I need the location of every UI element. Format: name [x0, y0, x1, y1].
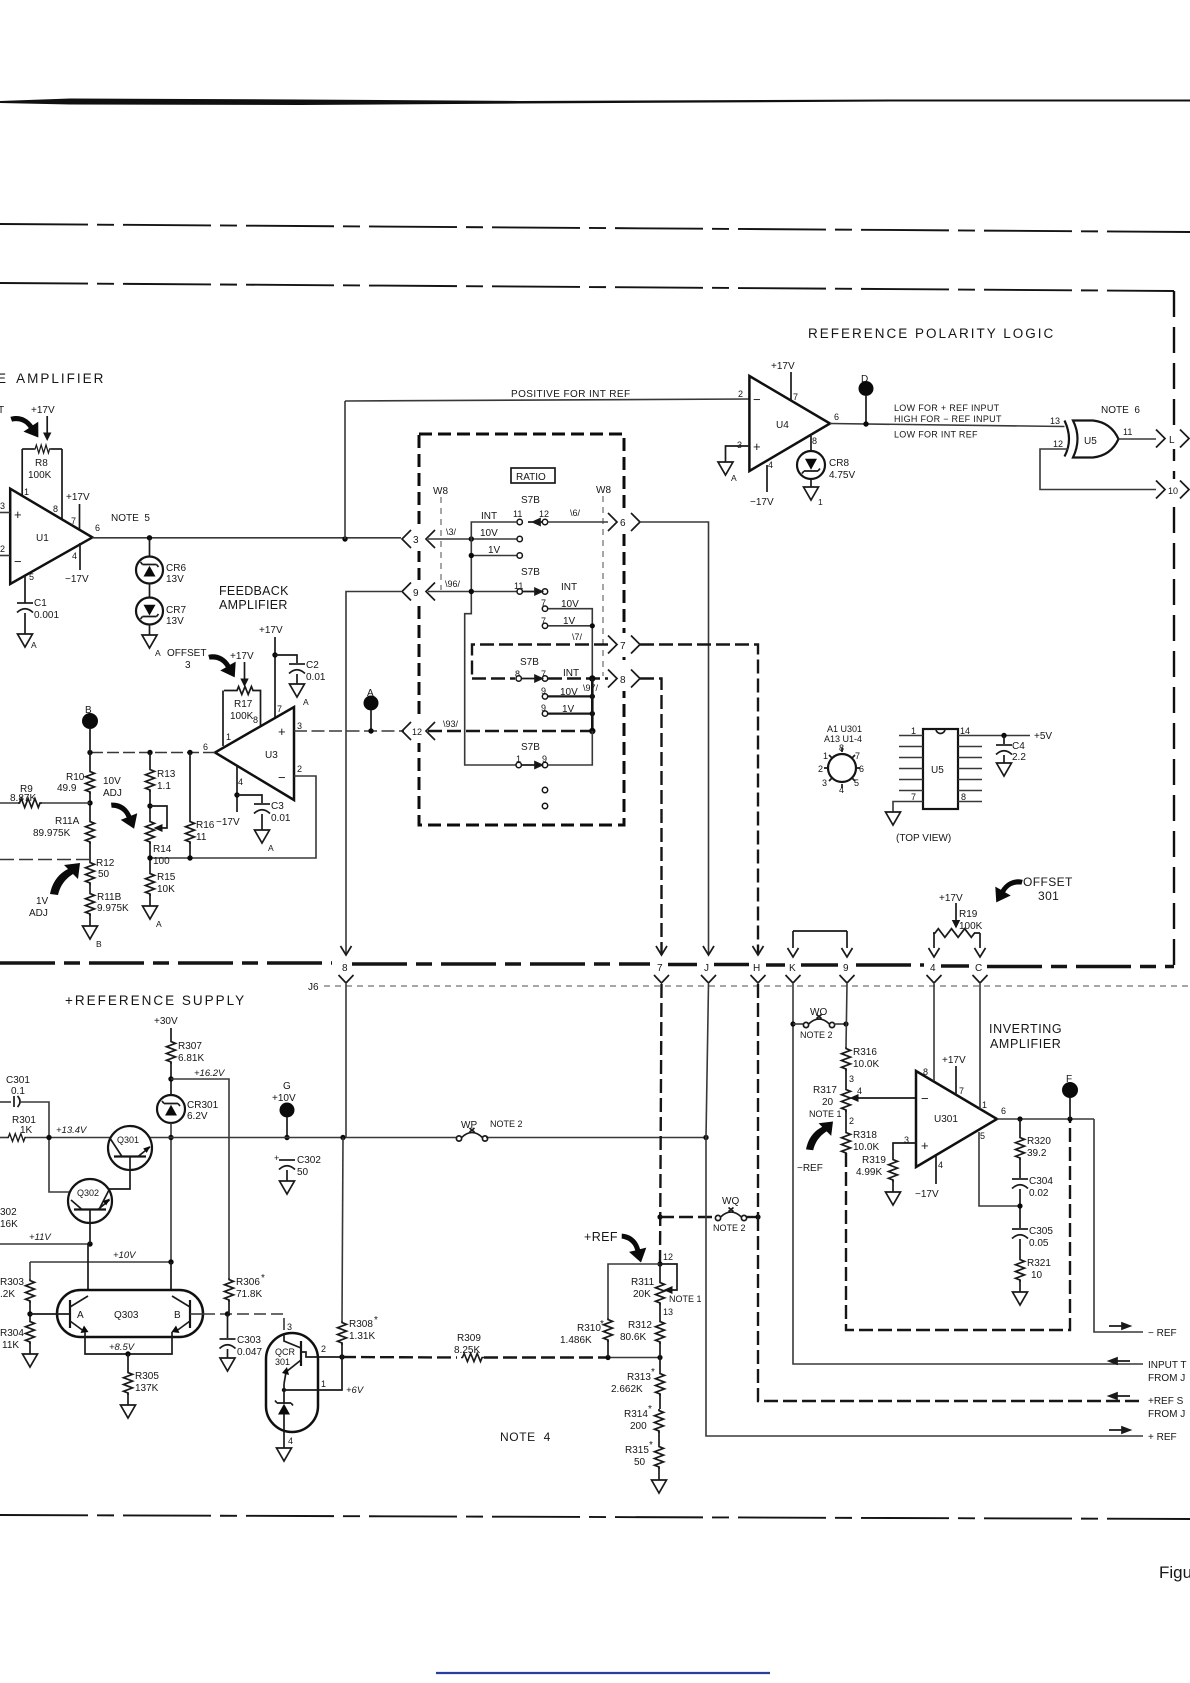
wire R314 to R315	[658, 1431, 660, 1445]
wire R15 to ground	[149, 894, 151, 906]
svg-text:6.2V: 6.2V	[187, 1111, 208, 1122]
svg-text:3: 3	[297, 721, 302, 731]
offset adjust arrow at R17	[204, 651, 240, 677]
op-amp U3 (mirrored, output left)	[215, 707, 294, 800]
spare contact 1	[542, 787, 547, 792]
svg-text:R11A: R11A	[55, 816, 80, 827]
emitter rail below Q303	[85, 1332, 172, 1354]
svg-text:10V: 10V	[480, 528, 498, 539]
wire +17V into R17 wiper	[244, 662, 246, 683]
svg-text:\93/: \93/	[443, 719, 459, 729]
svg-text:A: A	[367, 688, 374, 699]
svg-text:FROM J: FROM J	[1148, 1409, 1185, 1420]
capacitor C305 0.05	[1012, 1229, 1028, 1239]
svg-text:LOW FOR + REF INPUT: LOW FOR + REF INPUT	[894, 403, 1000, 413]
svg-text:W8: W8	[596, 485, 611, 496]
svg-text:10K: 10K	[157, 884, 175, 895]
svg-text:POSITIVE FOR INT REF: POSITIVE FOR INT REF	[511, 389, 631, 400]
svg-text:\7/: \7/	[572, 632, 583, 642]
svg-text:6: 6	[834, 412, 839, 422]
resistor R314* 200	[655, 1409, 664, 1433]
wire branch to C2	[275, 655, 297, 663]
svg-text:A: A	[268, 843, 274, 853]
svg-text:0.001: 0.001	[34, 610, 59, 621]
resistor R16 11	[189, 753, 191, 821]
ground A below C1	[18, 634, 33, 647]
svg-text:10.0K: 10.0K	[853, 1059, 879, 1070]
svg-text:REFERENCE POLARITY LOGIC: REFERENCE POLARITY LOGIC	[808, 326, 1055, 341]
svg-text:R19: R19	[959, 909, 978, 920]
svg-text:C304: C304	[1029, 1176, 1053, 1187]
resistor R315* 50	[655, 1445, 664, 1469]
svg-text:NOTE 1: NOTE 1	[809, 1109, 842, 1119]
svg-text:8: 8	[253, 715, 258, 725]
wire R315 to ground	[658, 1467, 660, 1480]
svg-text:C303: C303	[237, 1335, 261, 1346]
svg-text:R321: R321	[1027, 1258, 1051, 1269]
wire C1 to ground	[24, 613, 26, 634]
wire R11B to ground	[89, 914, 91, 926]
svg-text:R320: R320	[1027, 1136, 1051, 1147]
svg-text:R312: R312	[628, 1320, 652, 1331]
J6 pin 7	[656, 946, 667, 955]
svg-text:8: 8	[923, 1067, 928, 1077]
svg-text:A: A	[155, 648, 161, 658]
resistor R318 10.0K	[842, 1131, 851, 1155]
svg-text:WQ: WQ	[722, 1196, 739, 1207]
IC U5 package top view	[923, 729, 958, 809]
svg-text:39.2: 39.2	[1027, 1148, 1047, 1159]
wire R13 to R14	[149, 790, 151, 820]
Q303-B internals	[189, 1300, 191, 1328]
J6 grey connector line	[324, 985, 1190, 987]
svg-text:12: 12	[1053, 439, 1063, 449]
svg-text:−: −	[14, 554, 22, 569]
svg-text:4: 4	[288, 1436, 293, 1446]
wire R10 to R9 node	[89, 792, 91, 820]
svg-text:R16: R16	[196, 820, 215, 831]
ground B	[83, 926, 98, 939]
svg-text:0.05: 0.05	[1029, 1238, 1049, 1249]
wire branch to C3	[237, 795, 262, 803]
J net riser and +REF output	[706, 984, 709, 1138]
svg-text:C301: C301	[6, 1075, 30, 1086]
svg-text:−: −	[753, 392, 761, 407]
svg-text:7: 7	[657, 963, 663, 974]
svg-text:+ REF: + REF	[1148, 1432, 1177, 1443]
svg-text:7: 7	[911, 792, 916, 802]
thick dashed net 8 to J6 pin7 riser	[640, 679, 662, 956]
wire +30V to R307	[170, 1028, 172, 1040]
wire Q303 output from B	[190, 1313, 203, 1315]
pin 3 input wire	[0, 512, 10, 514]
svg-text:3: 3	[0, 501, 5, 511]
svg-text:8.25K: 8.25K	[454, 1345, 480, 1356]
svg-text:FEEDBACK: FEEDBACK	[219, 584, 289, 598]
svg-text:C4: C4	[1012, 741, 1025, 752]
wire 1V contact to vertical	[548, 625, 592, 627]
svg-text:+17V: +17V	[771, 361, 795, 372]
svg-text:U1: U1	[36, 533, 49, 544]
svg-text:12: 12	[412, 727, 422, 737]
xor gate U5	[1065, 421, 1070, 457]
connector 8 at box right edge	[608, 670, 617, 688]
wire Q302 emitter to +11V rail	[89, 1223, 91, 1244]
svg-text:R314: R314	[624, 1409, 648, 1420]
svg-text:3: 3	[737, 440, 742, 450]
svg-text:E AMPLIFIER: E AMPLIFIER	[0, 371, 105, 386]
svg-text:NOTE 2: NOTE 2	[490, 1119, 523, 1129]
wire +17V down to U3 pin7	[274, 637, 276, 718]
svg-text:4: 4	[839, 785, 844, 795]
resistor R307 6.81K	[167, 1040, 176, 1064]
svg-text:0.02: 0.02	[1029, 1188, 1049, 1199]
wire CR7 to ground	[149, 625, 151, 636]
svg-text:4: 4	[938, 1160, 943, 1170]
svg-text:S7B: S7B	[521, 495, 540, 506]
ground A below C2	[290, 684, 305, 697]
svg-text:1: 1	[823, 751, 828, 761]
svg-text:6: 6	[95, 523, 100, 533]
svg-text:0.047: 0.047	[237, 1347, 262, 1358]
svg-text:1: 1	[982, 1100, 987, 1110]
svg-text:1: 1	[226, 732, 231, 742]
QCR301 transistor internals	[300, 1341, 302, 1366]
INPUT FROM J label	[1109, 1358, 1130, 1364]
svg-text:0.01: 0.01	[306, 672, 326, 683]
wire R8 right lead to pin8	[61, 449, 63, 520]
wire C303 to ground	[227, 1349, 229, 1358]
capacitor C1 0.001	[17, 603, 33, 613]
wire R12 row to left edge	[0, 859, 90, 861]
svg-text:OFFSET: OFFSET	[167, 648, 206, 659]
svg-text:+: +	[753, 439, 761, 454]
svg-text:R15: R15	[157, 872, 176, 883]
svg-text:*: *	[651, 1367, 655, 1378]
wire C304 to node	[1019, 1189, 1021, 1228]
svg-text:+17V: +17V	[939, 893, 963, 904]
resistor R15 10K	[146, 872, 155, 896]
svg-text:7: 7	[620, 641, 626, 652]
svg-text:+30V: +30V	[154, 1016, 178, 1027]
net 7 riser below J6	[660, 984, 662, 1264]
svg-text:7: 7	[277, 704, 282, 714]
svg-text:1V: 1V	[36, 896, 49, 907]
transistor Q301	[108, 1126, 152, 1170]
thick dashed net 12 row	[428, 730, 592, 732]
vertical tie line wafer3	[591, 679, 594, 732]
svg-text:Q302: Q302	[77, 1188, 99, 1198]
svg-text:A: A	[731, 473, 737, 483]
svg-text:2: 2	[0, 544, 5, 554]
svg-text:8: 8	[839, 743, 844, 753]
svg-text:−17V: −17V	[65, 574, 89, 585]
wire C3 to ground	[261, 814, 263, 830]
svg-text:10.0K: 10.0K	[853, 1142, 879, 1153]
svg-text:1V: 1V	[488, 545, 501, 556]
svg-text:7: 7	[959, 1086, 964, 1096]
svg-text:6: 6	[620, 518, 626, 529]
svg-text:10V: 10V	[103, 776, 121, 787]
svg-text:*: *	[374, 1315, 378, 1326]
svg-text:R10: R10	[66, 772, 85, 783]
svg-text:50: 50	[98, 869, 110, 880]
wire connector 3 into switch	[428, 538, 517, 540]
node A	[364, 696, 379, 711]
thick dashed net 7 to H riser	[640, 645, 758, 956]
svg-text:4: 4	[768, 460, 773, 470]
svg-text:2: 2	[297, 764, 302, 774]
svg-text:7: 7	[793, 392, 798, 402]
svg-text:+: +	[921, 1138, 929, 1153]
svg-text:5: 5	[854, 778, 859, 788]
svg-text:CR7: CR7	[166, 605, 186, 616]
wire node to CR6	[149, 538, 151, 557]
svg-text:9: 9	[413, 588, 419, 599]
jumper WO	[790, 1021, 795, 1026]
capacitor C304 0.02	[1012, 1179, 1028, 1189]
wire C301 to +13.4V node	[20, 1102, 49, 1138]
svg-text:8: 8	[620, 675, 626, 686]
svg-text:U3: U3	[265, 750, 278, 761]
svg-text:8: 8	[342, 963, 348, 974]
svg-text:T: T	[0, 405, 4, 416]
svg-text:1K: 1K	[20, 1125, 33, 1136]
-REF output arrow	[1109, 1323, 1130, 1329]
svg-text:AMPLIFIER: AMPLIFIER	[219, 598, 288, 612]
zener diode inside QCR301	[275, 1401, 293, 1406]
wire 1V contact row	[471, 555, 517, 557]
right pins 13-9	[958, 747, 982, 791]
svg-text:+5V: +5V	[1034, 731, 1052, 742]
wire R11A to R12	[89, 842, 91, 861]
ground A below CR7	[142, 635, 157, 648]
wire CR301 to +10V vertical	[170, 1123, 172, 1262]
svg-text:+REFERENCE SUPPLY: +REFERENCE SUPPLY	[65, 993, 246, 1008]
svg-text:R17: R17	[234, 699, 253, 710]
svg-text:Q303: Q303	[114, 1310, 139, 1321]
thick dashed net 8 row through wafer3	[472, 677, 608, 679]
capacitor C3 0.01	[254, 804, 270, 814]
wire R16 to feedback line	[189, 842, 191, 858]
svg-text:4: 4	[930, 963, 936, 974]
svg-text:301: 301	[1038, 889, 1059, 903]
svg-text:C305: C305	[1029, 1226, 1053, 1237]
9 net riser to R316	[846, 984, 847, 1047]
svg-text:13: 13	[663, 1307, 673, 1317]
resistor R313* 2.662K	[656, 1372, 665, 1396]
svg-text:R307: R307	[178, 1041, 202, 1052]
output wire to -REF	[1094, 1119, 1143, 1332]
svg-text:2: 2	[818, 764, 823, 774]
svg-text:NOTE 5: NOTE 5	[111, 513, 150, 524]
upper dash-dot rule	[0, 224, 1190, 232]
svg-text:301: 301	[275, 1357, 290, 1367]
wire INT contact to vertical	[465, 522, 517, 765]
dual transistor Q303	[57, 1290, 203, 1337]
resistor R319 4.99K	[889, 1158, 898, 1182]
svg-text:12: 12	[539, 509, 549, 519]
svg-text:− REF: − REF	[1148, 1328, 1177, 1339]
wire R8 left lead to pin1	[21, 449, 23, 496]
wire R304 to ground	[29, 1342, 31, 1354]
svg-text:Figu: Figu	[1159, 1563, 1190, 1582]
bottom border dash rule	[0, 1515, 1190, 1519]
svg-text:R313: R313	[627, 1372, 651, 1383]
op-amp U301	[916, 1071, 997, 1167]
svg-text:7: 7	[855, 751, 860, 761]
pin 1 wire from J6 pin C	[979, 984, 981, 1109]
capacitor C4 2.2	[1003, 736, 1005, 745]
svg-text:F: F	[1066, 1074, 1072, 1085]
svg-text:ADJ: ADJ	[103, 788, 122, 799]
svg-text:−: −	[921, 1091, 929, 1106]
resistor R320 39.2	[1019, 1119, 1021, 1136]
-REF label and arrow	[806, 1122, 833, 1151]
svg-text:13: 13	[1050, 416, 1060, 426]
resistor R8 100K	[22, 448, 34, 450]
svg-text:1: 1	[321, 1379, 326, 1389]
wire net6 to J6 pin J riser	[640, 522, 709, 955]
output wire of U3 to B node chain	[90, 752, 215, 754]
jumper WQ on dashed link	[660, 1216, 716, 1218]
wire R307 to +16.2V node	[170, 1062, 172, 1095]
svg-text:4.99K: 4.99K	[856, 1167, 882, 1178]
RATIO boxed label	[511, 468, 555, 483]
wire R308 to output node	[341, 1343, 343, 1357]
resistor R13 1.1	[149, 753, 151, 769]
svg-text:R12: R12	[96, 858, 115, 869]
capacitor C303 0.047	[227, 1314, 229, 1338]
wire R310 tap	[608, 1264, 660, 1318]
svg-text:R8: R8	[35, 458, 48, 469]
svg-text:0.1: 0.1	[11, 1086, 25, 1097]
wire B chain down	[89, 753, 91, 771]
svg-text:4: 4	[238, 777, 243, 787]
spare contact 2	[542, 803, 547, 808]
svg-text:13V: 13V	[166, 574, 184, 585]
J6 boundary dash-dot line segments	[0, 963, 1174, 967]
resistor R303 1.2K	[26, 1279, 35, 1303]
+REF SENSE FROM J label	[1109, 1393, 1130, 1399]
svg-text:+: +	[278, 724, 286, 739]
pin 2 input wire	[0, 555, 10, 557]
svg-text:6: 6	[859, 764, 864, 774]
svg-text:5: 5	[980, 1131, 985, 1141]
svg-text:INPUT T: INPUT T	[1148, 1360, 1187, 1371]
svg-text:100: 100	[153, 856, 170, 867]
wire Q303-A collector riser	[87, 1244, 89, 1291]
svg-text:NOTE 4: NOTE 4	[500, 1430, 551, 1444]
connector 9 at box left edge	[402, 583, 411, 601]
potentiometer R17 100K	[224, 687, 261, 695]
zener diode CR301 6.2V	[157, 1095, 185, 1123]
wire +10V rail down to R303	[29, 1262, 31, 1279]
connector 6 at box right edge	[608, 513, 617, 531]
svg-text:C1: C1	[34, 598, 47, 609]
svg-text:B: B	[96, 939, 102, 949]
svg-text:+10V: +10V	[113, 1250, 137, 1261]
svg-text:A: A	[31, 640, 37, 650]
svg-text:100K: 100K	[28, 470, 52, 481]
feedback dashed loop R318 to output	[846, 1119, 1070, 1330]
svg-text:+10V: +10V	[272, 1093, 296, 1104]
J6 pin H	[753, 946, 764, 955]
svg-text:0.01: 0.01	[271, 813, 291, 824]
pin 1 wire of QCR301	[282, 1388, 286, 1392]
resistor R304 11K	[26, 1320, 35, 1344]
junction node at CR6	[147, 535, 152, 540]
svg-text:71.8K: 71.8K	[236, 1289, 262, 1300]
ground 1 below CR8	[804, 487, 819, 500]
svg-text:+13.4V: +13.4V	[56, 1125, 88, 1136]
wire R14 to R15 node	[149, 842, 151, 872]
wire 10V contact right then down	[548, 609, 592, 679]
svg-text:8: 8	[961, 792, 966, 802]
svg-text:R304: R304	[0, 1328, 24, 1339]
svg-text:200: 200	[630, 1421, 647, 1432]
svg-text:2: 2	[738, 389, 743, 399]
svg-text:+17V: +17V	[31, 405, 55, 416]
wire +17V into R19 wiper	[955, 903, 957, 922]
wire C2 to ground	[296, 674, 298, 684]
svg-text:−REF: −REF	[797, 1163, 823, 1174]
svg-text:R13: R13	[157, 769, 176, 780]
resistor R308* 1.31K	[345, 984, 347, 1138]
wire CR6 to CR7	[149, 584, 151, 598]
svg-text:+8.5V: +8.5V	[109, 1342, 136, 1353]
svg-text:9: 9	[843, 963, 849, 974]
connector 7 at box right edge	[608, 636, 617, 654]
svg-text:+6V: +6V	[346, 1385, 365, 1396]
+16.2V rail to R306	[171, 1079, 229, 1278]
svg-text:R315: R315	[625, 1445, 649, 1456]
wire Q303-B collector riser	[170, 1262, 172, 1291]
svg-text:+16.2V: +16.2V	[194, 1068, 226, 1079]
op-amp U1	[10, 489, 92, 584]
resistor R321 10	[1016, 1258, 1025, 1282]
svg-text:3: 3	[413, 535, 419, 546]
svg-text:6: 6	[203, 742, 208, 752]
svg-text:R14: R14	[153, 844, 172, 855]
ground A below C3	[255, 830, 270, 843]
svg-text:50: 50	[634, 1457, 646, 1468]
svg-text:*: *	[649, 1440, 653, 1451]
svg-text:S7B: S7B	[521, 742, 540, 753]
K net riser and INPUT output	[792, 984, 794, 1024]
svg-text:+17V: +17V	[259, 625, 283, 636]
H net riser and +REF SENSE output	[757, 984, 759, 1217]
svg-text:*: *	[648, 1404, 652, 1415]
svg-text:2: 2	[321, 1344, 326, 1354]
wire base A from R303/R304 node	[30, 1313, 70, 1315]
svg-text:S7B: S7B	[520, 657, 539, 668]
svg-text:(TOP VIEW): (TOP VIEW)	[896, 833, 951, 844]
potentiometer R14 100 with wiper loop	[146, 820, 155, 844]
Q303-A internals	[69, 1300, 71, 1328]
wire POSITIVE FOR INT REF	[345, 399, 749, 401]
svg-text:10: 10	[1168, 486, 1178, 496]
svg-text:+: +	[14, 507, 22, 522]
svg-text:11: 11	[1123, 427, 1132, 437]
svg-text:R316: R316	[853, 1047, 877, 1058]
svg-text:4: 4	[72, 551, 77, 561]
svg-text:3: 3	[185, 660, 191, 671]
svg-text:8: 8	[53, 504, 58, 514]
wire connector 9 to riser x=346	[346, 592, 401, 956]
svg-text:13V: 13V	[166, 616, 184, 627]
svg-text:14: 14	[960, 726, 970, 736]
